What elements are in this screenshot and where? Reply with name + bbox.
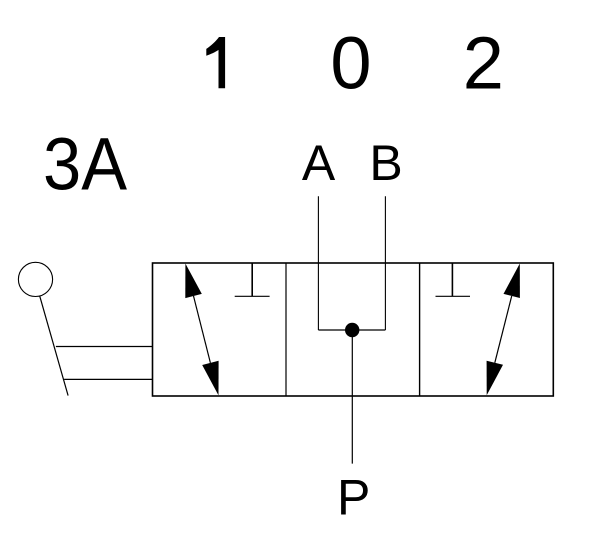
lever knob: [18, 262, 52, 296]
valve body outline: [153, 263, 554, 396]
lever arm: [40, 296, 68, 395]
flow arrow right: [487, 264, 520, 396]
wire A: [317, 196, 319, 330]
svg-text:B: B: [369, 135, 402, 191]
wire P: [351, 330, 353, 464]
junction dot: [345, 323, 359, 337]
wire B: [384, 196, 386, 330]
linkage upper: [56, 346, 153, 348]
svg-text:2: 2: [463, 22, 504, 105]
wire connector A-B: [318, 329, 385, 331]
linkage lower: [64, 378, 152, 380]
blocked port T right: [436, 263, 471, 296]
flow arrow left: [185, 264, 218, 396]
svg-text:A: A: [302, 135, 336, 191]
divider left: [285, 263, 287, 396]
svg-text:P: P: [337, 470, 370, 526]
svg-text:0: 0: [330, 22, 371, 105]
svg-text:3A: 3A: [43, 123, 128, 206]
position label 1: [206, 37, 225, 88]
blocked port T left: [235, 263, 270, 296]
divider right: [419, 263, 421, 396]
